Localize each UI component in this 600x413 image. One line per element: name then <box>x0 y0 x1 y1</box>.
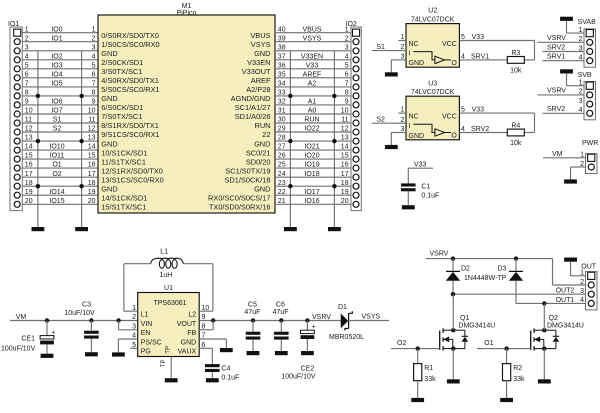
svg-text:IO6: IO6 <box>51 99 62 106</box>
svg-text:IO10: IO10 <box>49 144 64 151</box>
svg-text:S2: S2 <box>53 126 62 133</box>
svg-text:GND: GND <box>101 49 117 58</box>
svg-text:4: 4 <box>461 126 465 133</box>
label CE1 <box>21 336 35 343</box>
svg-text:18: 18 <box>25 180 33 187</box>
net label V33 (C1) <box>414 161 427 168</box>
wire IO1 pin 20 (IO15) <box>22 198 98 205</box>
svg-text:IO7: IO7 <box>51 108 62 115</box>
net label OUT1 <box>556 297 575 304</box>
junction OUT1-Q2 <box>542 301 546 305</box>
svg-text:SVAB: SVAB <box>578 19 596 26</box>
svg-text:TX0/SD0/S0RX/16: TX0/SD0/S0RX/16 <box>209 203 271 212</box>
wire IO2 pin 2 (VSYS) <box>275 35 351 42</box>
label U3 <box>411 80 455 96</box>
svg-text:11: 11 <box>25 117 32 124</box>
svg-text:IO0: IO0 <box>51 26 62 33</box>
wire IO1 pin 1 (IO0) <box>22 26 98 33</box>
svg-text:8: 8 <box>92 90 96 97</box>
svg-text:0.1uF: 0.1uF <box>421 192 439 199</box>
svg-text:VBUS: VBUS <box>302 26 321 33</box>
label Q1 <box>460 315 469 322</box>
label M1 <box>177 3 197 17</box>
capacitor C3 <box>84 321 99 353</box>
svg-text:R1: R1 <box>424 365 433 372</box>
wire IO1 pin 10 (IO7) <box>22 108 98 115</box>
svg-text:33: 33 <box>278 90 286 97</box>
svg-text:8: 8 <box>202 323 206 330</box>
svg-text:DMG3414U: DMG3414U <box>547 323 584 330</box>
svg-text:1: 1 <box>400 107 404 114</box>
wire IO1 pin 11 (S1) <box>22 117 98 124</box>
connector SVAB <box>578 19 596 67</box>
svg-text:2: 2 <box>92 35 96 42</box>
wire IO2 pin 14 (IO21) <box>275 144 351 151</box>
svg-text:CE2: CE2 <box>301 365 315 372</box>
label CE2 <box>301 365 315 372</box>
wire OUT pin 1 <box>571 262 586 277</box>
svg-text:8: 8 <box>345 90 349 97</box>
wire SVB pin 3 (nc) <box>579 98 583 105</box>
svg-text:5: 5 <box>461 34 465 41</box>
M1 right pin names <box>208 31 271 212</box>
wire IO1 pin 8 (GND) <box>22 90 98 97</box>
wire SVAB pin 2 (VSRV) <box>538 35 585 43</box>
svg-text:12: 12 <box>88 126 96 133</box>
ground CE2 <box>301 351 314 355</box>
svg-text:13: 13 <box>341 135 349 142</box>
junction C5 <box>251 318 255 322</box>
junction <box>288 94 292 98</box>
svg-text:12: 12 <box>341 126 349 133</box>
ground SVB pin1 <box>560 69 573 73</box>
svg-text:33k: 33k <box>513 376 525 383</box>
svg-text:27: 27 <box>278 144 286 151</box>
svg-text:PWR: PWR <box>582 140 598 147</box>
svg-text:U2: U2 <box>428 8 437 15</box>
junction <box>288 139 292 143</box>
svg-text:VSRV: VSRV <box>430 250 449 257</box>
svg-text:3: 3 <box>132 323 136 330</box>
svg-text:13: 13 <box>88 135 96 142</box>
wire IO2 pin 13 (GND) <box>275 135 351 142</box>
svg-text:VCC: VCC <box>442 113 457 120</box>
svg-text:SC1/S0TX/19: SC1/S0TX/19 <box>225 166 270 175</box>
svg-text:2: 2 <box>580 279 584 286</box>
svg-text:U3: U3 <box>428 80 437 87</box>
net label VSRV (top) <box>430 250 449 257</box>
wire U1 pin 5 (PG) <box>130 342 138 349</box>
wire IO2 pin 20 (IO16) <box>275 198 351 205</box>
svg-text:NC: NC <box>409 41 419 48</box>
ground SVAB pin1 <box>560 17 573 21</box>
svg-text:I: I <box>409 51 411 58</box>
junction <box>36 94 40 98</box>
svg-text:0/S0RX/SD0/TX0: 0/S0RX/SD0/TX0 <box>101 31 159 40</box>
resistor R4 <box>507 123 524 136</box>
net label VSYS <box>362 314 381 321</box>
value 33k (R1) <box>424 376 436 383</box>
svg-text:10: 10 <box>341 108 349 115</box>
junction EN <box>116 318 120 322</box>
wire U2 pin 3 GND <box>391 54 406 73</box>
svg-text:8: 8 <box>25 90 29 97</box>
wire U3 pin 5 VCC (V33) <box>459 107 534 133</box>
wire U1 pin 4 (PS/SC) <box>118 333 137 353</box>
svg-text:11: 11 <box>341 117 348 124</box>
svg-text:IO21: IO21 <box>304 144 319 151</box>
value MBR0520L (D1) <box>329 334 364 341</box>
connector IO1 <box>8 21 22 210</box>
resistor R3 <box>507 50 524 63</box>
svg-text:2: 2 <box>580 161 584 168</box>
svg-text:C3: C3 <box>82 301 91 308</box>
wire SVB pin 4 (SRV2) <box>543 106 585 114</box>
ground U3 <box>385 145 398 149</box>
svg-text:15/S1TX/SC1: 15/S1TX/SC1 <box>101 203 146 212</box>
svg-text:OUT1: OUT1 <box>556 297 575 304</box>
junction C6 <box>279 318 283 322</box>
junction FB <box>211 318 215 322</box>
wire IO2 pin 16 (IO19) <box>275 162 351 169</box>
svg-text:100uF/10V: 100uF/10V <box>281 374 316 381</box>
wire IO2 pin 1 (VBUS) <box>275 26 351 33</box>
svg-text:C1: C1 <box>421 183 430 190</box>
svg-text:15: 15 <box>25 153 33 160</box>
junction <box>79 94 83 98</box>
wire OUT pin 3 (OUT2) <box>453 288 586 295</box>
ground C6 <box>275 351 288 355</box>
svg-text:A2: A2 <box>308 81 317 88</box>
svg-text:13/S1CS/SC0/RX0: 13/S1CS/SC0/RX0 <box>101 175 163 184</box>
net label V33 <box>472 34 485 41</box>
svg-text:PG: PG <box>141 349 151 356</box>
junction <box>288 184 292 188</box>
wire IO1 pin 3 (GND) <box>22 44 98 51</box>
resistor R2 <box>503 349 511 398</box>
svg-text:IO17: IO17 <box>304 189 319 196</box>
svg-text:7: 7 <box>345 81 349 88</box>
ground <box>32 227 45 231</box>
svg-text:TPS63061: TPS63061 <box>153 300 186 307</box>
diode D3 1N4448W-TP <box>509 259 523 304</box>
svg-text:7: 7 <box>202 333 206 340</box>
wire IO1 pin 17 (O2) <box>22 171 98 178</box>
wire IO1 pin 9 (IO6) <box>22 99 98 106</box>
junction R1 <box>416 346 420 350</box>
svg-text:7: 7 <box>92 81 96 88</box>
svg-text:IO5: IO5 <box>51 81 62 88</box>
svg-text:SRV1: SRV1 <box>547 54 565 61</box>
ground C4 <box>206 378 219 382</box>
svg-text:32: 32 <box>278 99 286 106</box>
svg-text:RUN: RUN <box>304 117 319 124</box>
svg-text:9: 9 <box>202 314 206 321</box>
wire IO2 pin 6 (AREF) <box>275 71 351 78</box>
svg-text:6: 6 <box>25 71 29 78</box>
svg-text:22: 22 <box>262 130 270 139</box>
svg-text:14: 14 <box>88 144 96 151</box>
svg-text:VM: VM <box>552 151 563 158</box>
ground R1 <box>411 398 424 402</box>
svg-text:MBR0520L: MBR0520L <box>329 334 364 341</box>
svg-text:SD1/A0/26: SD1/A0/26 <box>235 112 271 121</box>
label C5 <box>248 301 257 308</box>
capacitor CE1 <box>40 321 55 354</box>
value 0.1uF (C4) <box>221 375 239 382</box>
svg-text:IO4: IO4 <box>51 71 62 78</box>
wire U1 pin 7 (GND) <box>199 333 226 348</box>
label C3 <box>82 301 91 308</box>
svg-text:11/S1TX/SC1: 11/S1TX/SC1 <box>101 157 146 166</box>
diode D1 MBR0520L <box>341 311 353 330</box>
svg-text:2: 2 <box>400 44 404 51</box>
svg-text:5: 5 <box>345 62 349 69</box>
capacitor C4 <box>205 364 220 378</box>
svg-text:R2: R2 <box>513 365 522 372</box>
svg-text:V33: V33 <box>472 34 485 41</box>
svg-text:VM: VM <box>16 314 27 321</box>
svg-text:1: 1 <box>400 34 404 41</box>
connector OUT <box>581 264 597 310</box>
svg-text:AREF: AREF <box>303 71 322 78</box>
wire OUT pin 4 (OUT1) <box>516 297 586 304</box>
svg-text:GND: GND <box>101 184 117 193</box>
wire IO1 pin 2 (IO1) <box>22 35 98 42</box>
junction D3 <box>514 256 518 260</box>
svg-text:VSYS: VSYS <box>362 314 381 321</box>
svg-text:GND: GND <box>181 339 197 346</box>
resistor R1 <box>414 349 422 398</box>
M1 left pin names <box>101 31 163 212</box>
net label V33 <box>472 106 485 113</box>
svg-text:17: 17 <box>25 171 33 178</box>
svg-text:L1: L1 <box>141 312 149 319</box>
svg-text:Q1: Q1 <box>460 315 469 322</box>
svg-text:O2: O2 <box>397 340 406 347</box>
value 10k (R3) <box>510 67 522 74</box>
svg-text:18: 18 <box>88 180 96 187</box>
svg-text:FB: FB <box>187 330 196 337</box>
wire U3 pin 4 output <box>459 126 534 133</box>
svg-text:1: 1 <box>579 27 583 34</box>
ic U2 74LVC07DCK body <box>406 24 459 68</box>
wire IO1 pin 19 (IO14) <box>22 189 98 196</box>
svg-text:2: 2 <box>132 314 136 321</box>
wire SVAB pin 1 <box>567 21 585 34</box>
svg-text:47uF: 47uF <box>273 309 289 316</box>
svg-text:PS/SC: PS/SC <box>141 339 162 346</box>
label Q2 <box>549 315 558 322</box>
wire U3 pin 2 input <box>372 117 406 124</box>
label C1 <box>421 183 430 190</box>
svg-text:V33EN: V33EN <box>247 58 270 67</box>
label U2 <box>411 8 455 24</box>
ground <box>328 227 341 231</box>
wire IO1 pin 5 (IO3) <box>22 62 98 69</box>
ground U1 PS/SC <box>112 352 125 356</box>
junction <box>79 139 83 143</box>
wire U3 pin 1 (NC) <box>398 107 406 114</box>
svg-text:VSYS: VSYS <box>251 40 271 49</box>
wire IO2 pin 3 (GND) <box>275 44 351 51</box>
svg-text:4: 4 <box>92 53 96 60</box>
svg-text:17: 17 <box>88 171 96 178</box>
svg-text:10: 10 <box>88 108 96 115</box>
svg-text:CE1: CE1 <box>21 336 35 343</box>
svg-text:9: 9 <box>25 99 29 106</box>
svg-text:34: 34 <box>278 81 286 88</box>
svg-text:16: 16 <box>25 162 33 169</box>
inductor L1 <box>124 258 213 311</box>
svg-text:GND: GND <box>254 184 270 193</box>
wire U2 pin 1 (NC) <box>398 34 406 41</box>
svg-text:9: 9 <box>345 99 349 106</box>
svg-text:O1: O1 <box>52 162 61 169</box>
label D1 <box>338 304 347 311</box>
svg-text:IO22: IO22 <box>304 126 319 133</box>
label L1 <box>160 249 168 256</box>
wire PWR pin 2 <box>571 161 586 180</box>
svg-text:1: 1 <box>92 26 96 33</box>
svg-text:IO11: IO11 <box>50 153 65 160</box>
svg-text:GND: GND <box>409 60 425 67</box>
svg-text:GND: GND <box>101 139 117 148</box>
ground Q1 source <box>447 379 460 383</box>
svg-text:3: 3 <box>345 44 349 51</box>
svg-text:22: 22 <box>278 189 286 196</box>
svg-text:4: 4 <box>132 333 136 340</box>
wire IO2 pin 11 (RUN) <box>275 117 351 124</box>
svg-text:14: 14 <box>341 144 349 151</box>
ground CE1 <box>41 354 54 358</box>
svg-text:10uF/10V: 10uF/10V <box>64 310 95 317</box>
junction <box>36 184 40 188</box>
svg-text:12: 12 <box>25 126 33 133</box>
svg-text:IO2: IO2 <box>51 53 62 60</box>
wire IO2 pin 4 (V33EN) <box>275 53 351 60</box>
wire SVAB pin 4 (SRV1) <box>543 54 585 62</box>
svg-text:7/S0TX/SC1: 7/S0TX/SC1 <box>101 112 142 121</box>
junction <box>332 94 336 98</box>
svg-text:IO15: IO15 <box>49 198 64 205</box>
svg-text:R4: R4 <box>511 123 520 130</box>
svg-text:4: 4 <box>580 297 584 304</box>
svg-text:RUN: RUN <box>254 121 270 130</box>
value 1N4448W-TP (D2) <box>464 275 507 282</box>
value 100uF/10V (CE2) <box>281 374 316 381</box>
svg-text:IO16: IO16 <box>304 198 319 205</box>
svg-text:19: 19 <box>25 189 33 196</box>
wire VSYS <box>349 320 389 322</box>
svg-text:C4: C4 <box>221 365 230 372</box>
label C4 <box>221 365 230 372</box>
svg-text:2: 2 <box>25 35 29 42</box>
capacitor C6 <box>274 321 289 352</box>
svg-text:VIN: VIN <box>141 321 153 328</box>
wire IO1 pin 7 (IO5) <box>22 81 98 88</box>
svg-text:74LVC07DCK: 74LVC07DCK <box>411 16 455 23</box>
svg-text:SC1/A1/27: SC1/A1/27 <box>235 103 271 112</box>
svg-text:1: 1 <box>579 80 583 87</box>
wire OUT pin 2 (VSRV) <box>580 279 584 286</box>
svg-text:GND: GND <box>409 133 425 140</box>
svg-text:TP: TP <box>160 359 167 367</box>
ic M1 PiPico body <box>98 15 275 213</box>
wire U3 pin 3 GND <box>391 126 406 145</box>
svg-text:V33EN: V33EN <box>301 53 323 60</box>
wire U1 TP pad <box>160 357 171 379</box>
wire IO1 pin 16 (O1) <box>22 162 98 169</box>
gnd bus wire <box>333 51 335 227</box>
svg-text:3: 3 <box>579 98 583 105</box>
wire IO1 pin 18 (GND) <box>22 180 98 187</box>
ic U3 74LVC07DCK body <box>406 96 459 140</box>
svg-text:A1: A1 <box>308 99 317 106</box>
gnd bus wire <box>37 51 39 227</box>
ic U1 TPS63061 body <box>138 293 200 357</box>
svg-text:6: 6 <box>92 71 96 78</box>
svg-text:5: 5 <box>25 62 29 69</box>
svg-text:VCC: VCC <box>442 41 457 48</box>
wire V33 stub <box>408 168 433 183</box>
svg-text:SC0/21: SC0/21 <box>246 148 271 157</box>
svg-text:6: 6 <box>345 71 349 78</box>
value 33k (R2) <box>513 376 525 383</box>
svg-text:GND: GND <box>101 94 117 103</box>
junction <box>332 184 336 188</box>
ground U2 <box>385 72 398 76</box>
svg-text:10k: 10k <box>510 140 522 147</box>
svg-text:VSRV: VSRV <box>547 35 566 42</box>
svg-text:D2: D2 <box>461 266 470 273</box>
svg-text:VSRV: VSRV <box>547 88 566 95</box>
wire U2 pin 5 VCC (V33) <box>459 34 534 60</box>
svg-text:74LVC07DCK: 74LVC07DCK <box>411 89 455 96</box>
junction CE2 <box>305 318 309 322</box>
svg-text:23: 23 <box>278 180 286 187</box>
svg-text:10k: 10k <box>510 67 522 74</box>
svg-text:0.1uF: 0.1uF <box>221 375 239 382</box>
svg-text:11: 11 <box>88 117 95 124</box>
gnd bus wire <box>81 51 83 227</box>
connector SVB <box>578 72 596 120</box>
svg-text:IO1: IO1 <box>51 35 62 42</box>
svg-text:14/S1CK/SD1: 14/S1CK/SD1 <box>101 193 147 202</box>
ground <box>284 227 297 231</box>
svg-text:1/S0CS/SC0/RX0: 1/S0CS/SC0/RX0 <box>101 40 159 49</box>
gnd bus wire <box>289 51 291 227</box>
net label S1 <box>376 44 385 51</box>
wire U1 pin 3 (EN) <box>119 321 138 331</box>
svg-text:19: 19 <box>88 189 96 196</box>
net label VSRV (rail) <box>312 314 331 321</box>
net label S2 <box>376 117 385 124</box>
wire IO1 pin 12 (S2) <box>22 126 98 133</box>
svg-text:31: 31 <box>278 108 286 115</box>
svg-text:C5: C5 <box>248 301 257 308</box>
svg-text:38: 38 <box>278 44 286 51</box>
svg-text:9: 9 <box>92 99 96 106</box>
value 100uF/10V (CE1) <box>1 345 36 352</box>
svg-text:15: 15 <box>88 153 96 160</box>
svg-text:3/S0TX/SC1: 3/S0TX/SC1 <box>101 67 142 76</box>
svg-text:10/S1CK/SD1: 10/S1CK/SD1 <box>101 148 147 157</box>
svg-text:14: 14 <box>25 144 33 151</box>
svg-text:36: 36 <box>278 62 286 69</box>
ground R2 <box>500 398 513 402</box>
svg-text:6/S0CK/SD1: 6/S0CK/SD1 <box>101 103 143 112</box>
